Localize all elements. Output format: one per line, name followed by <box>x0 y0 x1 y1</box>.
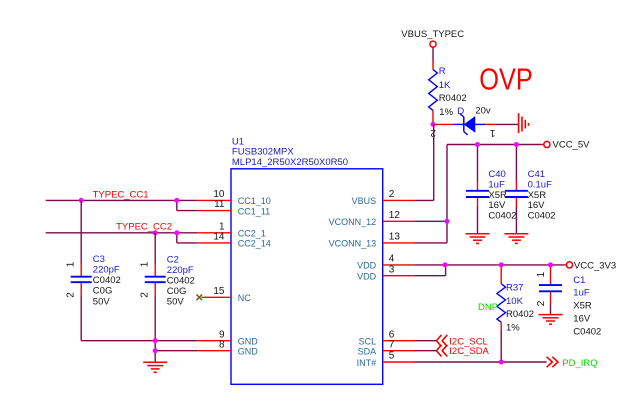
wire SCL <box>415 340 436 342</box>
svg-text:INT#: INT# <box>357 358 377 368</box>
wire TYPEC_CC2 <box>46 233 198 243</box>
capacitor C3 <box>71 200 156 340</box>
svg-text:MLP14_2R50X2R50X0R50: MLP14_2R50X2R50X0R50 <box>232 157 348 168</box>
port VBUS_TYPEC <box>401 29 464 48</box>
pin 15 NC <box>202 286 252 303</box>
svg-text:C0G: C0G <box>167 286 187 297</box>
svg-text:C0402: C0402 <box>93 275 121 286</box>
svg-text:CC1_11: CC1_11 <box>238 206 270 216</box>
pin 7 SDA <box>358 339 415 356</box>
pin 6 SCL <box>359 329 415 346</box>
wire INT# to PD_IRQ <box>415 361 547 363</box>
pin 4 VDD <box>357 254 414 271</box>
svg-text:CC2_14: CC2_14 <box>238 239 271 249</box>
node VCONN junction <box>445 219 450 224</box>
svg-text:TYPEC_CC2: TYPEC_CC2 <box>116 222 172 233</box>
svg-text:PD_IRQ: PD_IRQ <box>562 358 597 369</box>
pin 10 CC1_10 <box>197 189 271 206</box>
svg-text:15: 15 <box>213 286 225 297</box>
node C40 junction <box>475 142 480 147</box>
svg-text:C1: C1 <box>573 275 585 286</box>
wire SDA <box>415 350 436 352</box>
svg-text:220pF: 220pF <box>167 265 194 276</box>
pin 1 CC2_1 <box>197 221 266 238</box>
svg-text:C41: C41 <box>528 169 545 180</box>
svg-text:1K: 1K <box>439 80 451 91</box>
svg-text:C3: C3 <box>93 254 105 265</box>
no-connect X on pin 15 <box>197 295 203 301</box>
node C1 top junction <box>548 262 553 267</box>
ground under C1 <box>539 315 563 325</box>
svg-text:R37: R37 <box>506 283 523 294</box>
pin 11 CC1_11 <box>197 199 270 216</box>
svg-text:2: 2 <box>66 292 77 298</box>
pin 2 VBUS <box>352 189 415 206</box>
wire VCONN_13 <box>415 242 447 244</box>
off-page connector I2C_SDA <box>436 345 489 357</box>
svg-text:C0402: C0402 <box>488 211 516 222</box>
wire VDD bus to VCC_3V3 <box>414 265 566 276</box>
ground below C2 <box>143 362 167 372</box>
pin 9 GND <box>197 329 258 346</box>
node A junction <box>431 122 436 127</box>
svg-text:SCL: SCL <box>359 337 377 347</box>
wire VCC_5V riser to VCONN pins <box>446 145 448 243</box>
wire TYPEC_CC1 <box>46 200 198 210</box>
wire resistor to node A <box>432 110 434 124</box>
node CC1 branch junction <box>174 198 179 203</box>
pin 13 VCONN_13 <box>329 232 415 249</box>
wire VCONN_12 <box>415 220 447 222</box>
svg-text:1uF: 1uF <box>573 288 590 299</box>
svg-text:3: 3 <box>389 264 395 275</box>
ground (rotated) right of diode <box>519 113 529 133</box>
svg-text:VDD: VDD <box>357 272 377 282</box>
wire VBUS_TYPEC to resistor R <box>432 48 434 70</box>
capacitor C40 <box>466 145 489 234</box>
svg-text:R0402: R0402 <box>506 309 534 320</box>
svg-text:1: 1 <box>66 261 77 267</box>
svg-text:DNP: DNP <box>478 302 498 313</box>
svg-text:C0402: C0402 <box>528 211 556 222</box>
resistor R37 <box>497 265 506 362</box>
svg-text:VBUS_TYPEC: VBUS_TYPEC <box>401 29 464 40</box>
svg-text:D: D <box>457 106 464 117</box>
svg-text:16V: 16V <box>573 314 591 325</box>
svg-text:VBUS: VBUS <box>352 196 377 206</box>
svg-text:CC1_10: CC1_10 <box>238 196 271 206</box>
wire node A to diode D <box>433 123 453 125</box>
op IC U1 body <box>231 169 383 384</box>
svg-text:220pF: 220pF <box>93 265 120 276</box>
svg-text:2: 2 <box>536 300 547 306</box>
svg-text:CC2_1: CC2_1 <box>238 229 266 239</box>
svg-text:1: 1 <box>489 127 495 138</box>
pin 5 INT# <box>357 351 415 368</box>
svg-text:10K: 10K <box>506 296 524 307</box>
svg-text:C2: C2 <box>167 254 179 265</box>
capacitor C1 <box>539 265 562 314</box>
svg-text:7: 7 <box>389 339 395 350</box>
svg-text:C40: C40 <box>488 169 505 180</box>
ground under C41 <box>504 234 528 244</box>
svg-text:13: 13 <box>389 232 401 243</box>
node GND9 junction <box>153 338 158 343</box>
capacitor C2 <box>145 233 166 351</box>
wire VCC_5V bus <box>447 144 544 146</box>
diode D (zener, 20v) <box>453 114 485 135</box>
node CC2 to C2 junction <box>153 230 158 235</box>
svg-text:20v: 20v <box>475 106 491 117</box>
svg-text:1%: 1% <box>506 323 520 334</box>
svg-text:VCONN_12: VCONN_12 <box>329 217 377 227</box>
svg-text:NC: NC <box>238 293 251 303</box>
node GND8 junction <box>153 348 158 353</box>
svg-text:1: 1 <box>536 271 547 277</box>
svg-text:5: 5 <box>389 351 395 362</box>
capacitor C41 <box>505 145 528 234</box>
svg-text:16V: 16V <box>488 200 506 211</box>
svg-text:12: 12 <box>389 210 401 221</box>
node R37 top junction <box>499 262 504 267</box>
svg-text:16V: 16V <box>528 200 546 211</box>
svg-text:OVP: OVP <box>479 61 533 96</box>
svg-text:2: 2 <box>389 189 395 200</box>
svg-text:14: 14 <box>213 232 225 243</box>
pin 3 VDD <box>357 264 414 281</box>
node C41 junction <box>514 142 519 147</box>
pin 8 GND <box>197 339 258 356</box>
svg-text:VDD: VDD <box>357 261 377 271</box>
svg-text:TYPEC_CC1: TYPEC_CC1 <box>93 190 149 201</box>
svg-text:2: 2 <box>140 292 151 298</box>
off-page connector PD_IRQ <box>547 357 598 369</box>
svg-text:8: 8 <box>219 339 225 350</box>
svg-text:50V: 50V <box>167 297 185 308</box>
svg-text:1%: 1% <box>439 107 453 118</box>
svg-text:R0402: R0402 <box>439 93 467 104</box>
svg-text:R: R <box>439 66 446 77</box>
port VCC_5V <box>544 140 590 151</box>
svg-text:0.1uF: 0.1uF <box>528 179 552 190</box>
svg-text:C0402: C0402 <box>167 276 195 287</box>
pin 12 VCONN_12 <box>329 210 415 227</box>
svg-text:C0G: C0G <box>93 286 113 297</box>
svg-text:X5R: X5R <box>488 190 507 201</box>
svg-text:C0402: C0402 <box>573 327 601 338</box>
resistor R <box>429 70 438 111</box>
node CC1 to C3 junction <box>79 198 84 203</box>
svg-text:VCONN_13: VCONN_13 <box>329 239 377 249</box>
node VDD junction <box>443 262 448 267</box>
svg-text:50V: 50V <box>93 296 111 307</box>
off-page connector I2C_SCL <box>436 335 487 348</box>
svg-text:VCC_3V3: VCC_3V3 <box>574 261 616 272</box>
port VCC_3V3 <box>566 261 616 272</box>
svg-text:VCC_5V: VCC_5V <box>553 140 591 151</box>
svg-text:X5R: X5R <box>573 301 592 312</box>
ground under C40 <box>466 234 490 244</box>
node INT junction <box>499 360 504 365</box>
svg-text:11: 11 <box>214 199 225 210</box>
wire diode to ground <box>485 123 518 125</box>
wire node A down to VBUS pin 2 <box>415 124 434 200</box>
svg-text:4: 4 <box>389 254 395 265</box>
svg-text:SDA: SDA <box>358 347 377 357</box>
svg-text:GND: GND <box>238 337 258 347</box>
svg-text:1uF: 1uF <box>488 179 505 190</box>
wire GND pins to ground <box>155 341 197 362</box>
node CC2 branch junction <box>174 230 179 235</box>
svg-text:GND: GND <box>238 347 258 357</box>
svg-text:X5R: X5R <box>528 190 547 201</box>
svg-text:1: 1 <box>140 261 151 267</box>
pin 14 CC2_14 <box>197 232 271 249</box>
svg-text:I2C_SDA: I2C_SDA <box>449 346 489 357</box>
